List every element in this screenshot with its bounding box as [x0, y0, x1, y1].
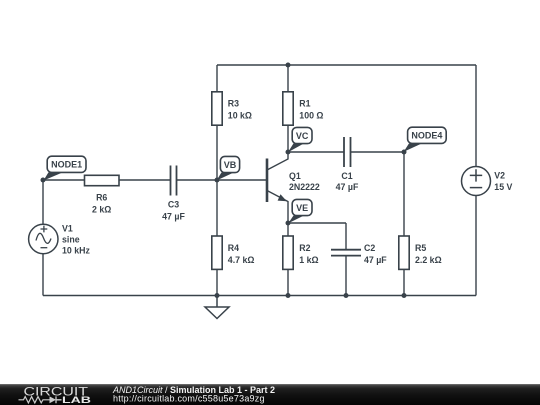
- value label C1 47 µF: [336, 171, 359, 192]
- wire VB to R4: [216, 180, 218, 236]
- svg-text:10 kΩ: 10 kΩ: [228, 111, 252, 121]
- node NODE1: [44, 156, 87, 180]
- node NODE4: [404, 127, 447, 152]
- CircuitLab logo: [19, 385, 92, 405]
- svg-text:R3: R3: [228, 99, 239, 109]
- wire R3 top stub: [216, 65, 218, 92]
- svg-text:1 kΩ: 1 kΩ: [299, 255, 318, 265]
- svg-text:C1: C1: [341, 171, 352, 181]
- wire bottom rail: [43, 295, 476, 297]
- svg-text:sine: sine: [62, 234, 80, 244]
- svg-text:47 µF: 47 µF: [162, 211, 185, 221]
- wire R2 bottom: [287, 270, 289, 296]
- value label R1 100 Ω: [299, 99, 323, 121]
- wire node VC to C1: [288, 151, 344, 153]
- wire C3 to node VB: [177, 179, 218, 181]
- wire R5 bottom: [403, 270, 405, 296]
- wire R1 top stub: [287, 65, 289, 92]
- wire C1 to node NODE4: [351, 151, 405, 153]
- wire R4 bottom: [216, 270, 218, 296]
- wire node VE to C2 horizontal: [288, 222, 346, 224]
- resistor R6: [85, 175, 120, 185]
- junction node VB: [215, 178, 220, 183]
- resistor R2: [283, 236, 293, 269]
- junction R2 bottom: [286, 293, 291, 298]
- junction node VE: [286, 221, 291, 226]
- capacitor C1: [344, 137, 351, 167]
- svg-text:R5: R5: [415, 243, 426, 253]
- wire R1 bottom to node VC: [287, 125, 289, 152]
- svg-text:Q1: Q1: [289, 171, 301, 181]
- svg-text:VE: VE: [296, 203, 308, 213]
- source V1: [29, 224, 58, 253]
- node VC: [288, 127, 312, 152]
- source V2: [462, 167, 491, 196]
- wire node VB to Q1 base: [217, 179, 266, 181]
- value label R4 4.7 kΩ: [228, 243, 255, 265]
- svg-text:R1: R1: [299, 99, 310, 109]
- svg-text:2N2222: 2N2222: [289, 182, 320, 192]
- wire V1 bottom: [42, 254, 44, 296]
- value label R6 2 kΩ: [92, 193, 111, 215]
- svg-text:V1: V1: [62, 223, 73, 233]
- svg-text:LAB: LAB: [62, 395, 91, 405]
- junction node NODE1: [41, 178, 46, 183]
- svg-text:C2: C2: [364, 243, 375, 253]
- junction R5 bottom: [402, 293, 407, 298]
- wire R6 to C3: [119, 179, 171, 181]
- svg-text:47 µF: 47 µF: [364, 255, 387, 265]
- value label V1 sine 10 kHz: [62, 223, 90, 255]
- capacitor C3: [171, 166, 177, 196]
- resistor R5: [399, 236, 409, 269]
- svg-text:47 µF: 47 µF: [336, 182, 359, 192]
- svg-text:R6: R6: [96, 193, 107, 203]
- svg-text:NODE4: NODE4: [411, 131, 442, 141]
- resistor R4: [212, 236, 222, 269]
- svg-text:100 Ω: 100 Ω: [299, 111, 323, 121]
- wire NODE4 to R5: [403, 152, 405, 236]
- junction ground rail: [215, 293, 220, 298]
- svg-text:http://circuitlab.com/c558u5e7: http://circuitlab.com/c558u5e73a9zg: [113, 394, 265, 404]
- junction R1 top rail: [286, 63, 291, 68]
- wire C2 top: [345, 223, 347, 249]
- svg-text:NODE1: NODE1: [51, 160, 82, 170]
- resistor R3: [212, 92, 222, 125]
- value label C2 47 µF: [364, 243, 387, 265]
- value label C3 47 µF: [162, 200, 185, 222]
- svg-text:VC: VC: [296, 131, 309, 141]
- resistor R1: [283, 92, 293, 125]
- wire node VE to R2: [287, 223, 289, 236]
- wire node NODE1 to R6: [43, 179, 85, 181]
- ground: [205, 296, 229, 319]
- wire V2 top: [475, 65, 477, 166]
- svg-text:V2: V2: [494, 171, 505, 181]
- svg-text:C3: C3: [168, 200, 179, 210]
- svg-text:4.7 kΩ: 4.7 kΩ: [228, 255, 255, 265]
- wire top rail: [217, 64, 476, 66]
- value label V2 15 V: [494, 171, 512, 192]
- wire V2 bottom: [475, 196, 477, 296]
- value label Q1 2N2222: [289, 171, 320, 192]
- value label R3 10 kΩ: [228, 99, 252, 121]
- svg-text:VB: VB: [224, 160, 237, 170]
- junction node VC: [286, 150, 291, 155]
- wire V1 top: [42, 180, 44, 224]
- transistor Q1: [267, 152, 288, 223]
- svg-text:2.2 kΩ: 2.2 kΩ: [415, 255, 442, 265]
- svg-text:10 kHz: 10 kHz: [62, 246, 90, 256]
- node VE: [288, 199, 312, 223]
- value label R2 1 kΩ: [299, 243, 318, 265]
- svg-text:15 V: 15 V: [494, 182, 512, 192]
- node VB: [217, 156, 240, 180]
- svg-text:R4: R4: [228, 243, 239, 253]
- svg-text:R2: R2: [299, 243, 310, 253]
- capacitor C2: [331, 250, 361, 256]
- value label R5 2.2 kΩ: [415, 243, 442, 265]
- svg-text:2 kΩ: 2 kΩ: [92, 205, 111, 215]
- wire C2 bottom: [345, 256, 347, 296]
- wire R3 bottom to node VB: [216, 125, 218, 180]
- junction node NODE4: [402, 150, 407, 155]
- junction C2 bottom: [344, 293, 349, 298]
